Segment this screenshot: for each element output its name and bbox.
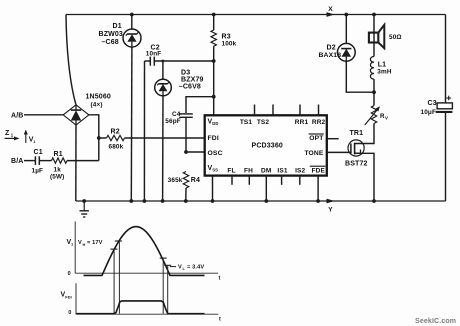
svg-text:L1: L1 bbox=[378, 61, 386, 68]
ground bbox=[80, 201, 89, 217]
wire C4 to OSC node bbox=[185, 117, 187, 152]
svg-text:PCD3360: PCD3360 bbox=[252, 143, 283, 150]
resistor R3 100k bbox=[211, 15, 237, 48]
wire VSS pin to ground rail bbox=[212, 176, 214, 202]
junction rail/C2 bbox=[143, 199, 147, 203]
svg-text:SS: SS bbox=[212, 168, 218, 173]
junction rail/D1 bbox=[129, 199, 133, 203]
junction rail/VSS bbox=[211, 199, 215, 203]
svg-text:BST72: BST72 bbox=[345, 161, 368, 168]
waveform VFDI axis label bbox=[61, 292, 72, 300]
svg-text:H: H bbox=[83, 242, 86, 247]
svg-text:SeekIC.com: SeekIC.com bbox=[415, 318, 456, 325]
wire RV to TR1 drain bbox=[355, 124, 374, 144]
diode D2 BAX18 bbox=[319, 15, 356, 62]
svg-text:–C68: –C68 bbox=[102, 39, 119, 46]
pin IS1 stub bbox=[281, 176, 283, 185]
junction rail/D3 bbox=[161, 199, 165, 203]
inductor L1 3mH bbox=[370, 56, 391, 92]
node V1 arrow label bbox=[24, 130, 37, 145]
pin RR2 stub bbox=[318, 105, 320, 116]
wire R2 to FDI pin bbox=[125, 137, 205, 139]
wire TONE pin to TR1 gate bbox=[327, 151, 351, 153]
node A/B label bbox=[11, 112, 24, 119]
svg-text:A/B: A/B bbox=[11, 112, 24, 119]
svg-text:365k: 365k bbox=[168, 177, 183, 184]
waveform threshold tick falling 2 bbox=[164, 264, 171, 266]
transistor TR1 BST72 MOSFET bbox=[345, 130, 368, 168]
wire C2 left to ground rail bbox=[143, 61, 145, 201]
junction C2 wire / D3 bbox=[162, 60, 165, 63]
wire bridge bottom to ground rail bbox=[75, 125, 77, 201]
junction node R2/bridge bbox=[97, 136, 101, 140]
waveform timing line rising VH bbox=[118, 241, 120, 314]
svg-text:56pF: 56pF bbox=[165, 118, 181, 125]
svg-text:R1: R1 bbox=[54, 151, 63, 158]
svg-text:t: t bbox=[219, 276, 221, 282]
resistor R1 1k 5W bbox=[50, 151, 99, 180]
waveform timing line falling 2 bbox=[167, 265, 169, 313]
svg-text:R2: R2 bbox=[111, 128, 120, 135]
pin TS1 stub bbox=[254, 105, 256, 116]
junction C2 wire / VDD line bbox=[212, 59, 216, 63]
waveform threshold tick VL rising bbox=[110, 248, 117, 250]
wire A/B input bbox=[24, 114, 63, 116]
svg-text:1N5060: 1N5060 bbox=[86, 94, 111, 101]
svg-text:100k: 100k bbox=[222, 41, 237, 48]
waveform VL = 3.4V label bbox=[170, 264, 205, 271]
svg-text:FH: FH bbox=[244, 167, 253, 174]
pin RR1 stub bbox=[299, 105, 301, 116]
junction rail/ground bbox=[82, 199, 86, 203]
capacitor C2 10nF bbox=[145, 45, 214, 66]
wire bridge top to rail bbox=[66, 15, 76, 105]
diode D3 BZX79-C6V8 zener bbox=[155, 61, 204, 96]
junction top rail / D2 bbox=[344, 13, 348, 17]
svg-text:0: 0 bbox=[68, 310, 71, 316]
wire DM pin to ground rail bbox=[265, 176, 267, 202]
waveform threshold tick VH rising bbox=[115, 240, 122, 242]
waveform timing line rising VL bbox=[113, 249, 115, 314]
svg-text:D1: D1 bbox=[113, 23, 122, 30]
wire D2 to L1 node bbox=[346, 61, 374, 92]
bridge rectifier 1N5060 (4x) bbox=[63, 94, 111, 126]
wire TR1 source to ground rail bbox=[355, 153, 374, 201]
junction top rail / R3 bbox=[212, 13, 216, 17]
svg-text:OPT: OPT bbox=[309, 135, 324, 142]
junction top rail / D1 bbox=[130, 13, 134, 17]
capacitor C1 1uF bbox=[32, 149, 52, 175]
waveform timing line falling 1 bbox=[162, 258, 164, 314]
svg-text:X: X bbox=[328, 6, 333, 13]
svg-text:IS1: IS1 bbox=[277, 167, 287, 174]
svg-text:–C6V8: –C6V8 bbox=[179, 84, 201, 91]
svg-text:Z: Z bbox=[5, 130, 10, 137]
svg-text:IS2: IS2 bbox=[295, 167, 305, 174]
waveform V1 axes bbox=[68, 222, 221, 282]
op-amp U1 PCD3360 IC body bbox=[205, 115, 327, 175]
svg-text:V: V bbox=[78, 240, 82, 246]
svg-text:FL: FL bbox=[227, 167, 235, 174]
junction VDD line / C4 branch bbox=[212, 95, 216, 99]
svg-text:R4: R4 bbox=[191, 177, 200, 184]
svg-text:R3: R3 bbox=[222, 34, 231, 41]
node Y arrow and label bbox=[327, 199, 335, 214]
pin FH stub bbox=[248, 176, 250, 185]
wire OSC pin bbox=[186, 151, 205, 153]
junction rail/TR1 bbox=[372, 199, 376, 203]
svg-text:(4×): (4×) bbox=[91, 102, 103, 109]
junction rail/FDE bbox=[316, 199, 320, 203]
svg-text:0: 0 bbox=[68, 271, 71, 277]
wire R4 to ground rail bbox=[185, 188, 187, 201]
diode D1 BZW03-C68 zener bbox=[99, 15, 142, 48]
junction D2/L1 node bbox=[372, 90, 376, 94]
wire top supply rail X bbox=[66, 14, 446, 16]
capacitor C3 10uF electrolytic bbox=[421, 15, 453, 202]
svg-text:Y: Y bbox=[328, 207, 333, 214]
svg-text:TONE: TONE bbox=[304, 150, 323, 157]
speaker LS1 50 ohm bbox=[369, 15, 402, 57]
resistor R4 365k bbox=[168, 172, 200, 189]
wire D3 to ground rail bbox=[162, 95, 164, 201]
waveform V1 axis label bbox=[67, 239, 75, 247]
junction rail/R4 bbox=[184, 199, 188, 203]
svg-text:= 3.4V: = 3.4V bbox=[187, 264, 204, 270]
capacitor C4 56pF bbox=[165, 97, 213, 126]
junction top rail / speaker bbox=[372, 13, 376, 17]
waveform threshold tick falling 1 bbox=[160, 257, 167, 259]
resistor R2 680k bbox=[99, 128, 125, 150]
waveform VFDI axes bbox=[68, 283, 221, 322]
svg-text:FDI: FDI bbox=[208, 135, 219, 142]
wire R3 to VDD pin bbox=[213, 46, 215, 115]
svg-text:DD: DD bbox=[212, 121, 218, 126]
wire FDE pin to ground rail bbox=[317, 176, 319, 202]
node B/A label bbox=[11, 158, 24, 165]
junction rail/DM bbox=[264, 199, 268, 203]
svg-text:B/A: B/A bbox=[11, 158, 24, 165]
svg-text:3mH: 3mH bbox=[377, 69, 392, 76]
svg-text:DM: DM bbox=[261, 167, 271, 174]
pin IS2 stub bbox=[299, 176, 301, 185]
svg-text:10nF: 10nF bbox=[146, 51, 162, 58]
svg-text:680k: 680k bbox=[109, 144, 124, 151]
waveform VH = 17V label bbox=[78, 240, 103, 247]
pin OPT stub bbox=[327, 138, 339, 140]
node X arrow and label bbox=[327, 6, 335, 17]
svg-text:FDE: FDE bbox=[312, 167, 326, 174]
pin FL stub bbox=[231, 176, 233, 185]
svg-text:C3: C3 bbox=[428, 100, 437, 107]
svg-text:V: V bbox=[385, 116, 388, 121]
node Z1 label with arrow bbox=[5, 130, 20, 140]
svg-text:RR1: RR1 bbox=[295, 119, 309, 126]
svg-text:C1: C1 bbox=[34, 149, 43, 156]
svg-text:C4: C4 bbox=[172, 111, 181, 118]
svg-text:t: t bbox=[219, 317, 221, 323]
svg-text:V: V bbox=[178, 264, 182, 270]
pin TS2 stub bbox=[272, 105, 274, 116]
svg-text:(5W): (5W) bbox=[50, 173, 64, 180]
svg-text:BAX18: BAX18 bbox=[319, 52, 342, 59]
wire B/A input bbox=[24, 160, 33, 162]
svg-text:OSC: OSC bbox=[208, 150, 223, 157]
junction OSC node bbox=[184, 150, 188, 154]
svg-text:BZW03: BZW03 bbox=[99, 31, 123, 38]
svg-text:= 17V: = 17V bbox=[87, 240, 103, 246]
svg-text:1µF: 1µF bbox=[32, 168, 44, 175]
wire bottom ground rail Y bbox=[76, 200, 446, 202]
watermark SeekIC.com bbox=[415, 318, 456, 325]
wire bridge right vertex to R2 node bbox=[89, 115, 99, 161]
svg-text:TS2: TS2 bbox=[257, 119, 270, 126]
svg-text:RR2: RR2 bbox=[312, 119, 326, 126]
wire D1 to ground rail bbox=[130, 46, 133, 201]
waveform VFDI pulse trace bbox=[77, 301, 205, 314]
svg-text:10μF: 10μF bbox=[421, 109, 437, 116]
svg-text:TR1: TR1 bbox=[350, 130, 364, 137]
svg-text:D2: D2 bbox=[327, 45, 336, 52]
waveform V1 sine trace bbox=[84, 227, 205, 276]
svg-text:FDI: FDI bbox=[65, 294, 72, 299]
svg-text:50Ω: 50Ω bbox=[389, 34, 402, 41]
svg-text:TS1: TS1 bbox=[240, 119, 253, 126]
variable resistor RV bbox=[365, 92, 388, 125]
